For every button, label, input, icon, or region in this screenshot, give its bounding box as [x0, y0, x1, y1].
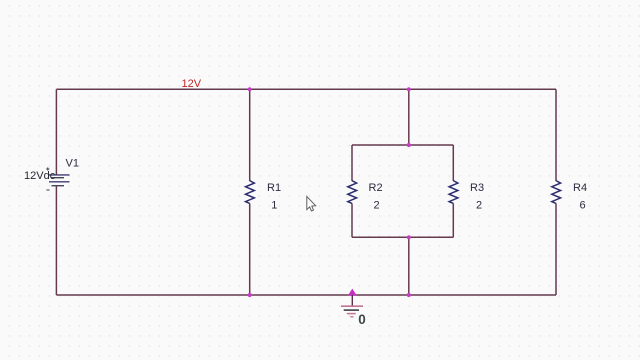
wire: box right lower [452, 203, 454, 237]
svg-text:0: 0 [358, 312, 366, 327]
junction dot: top rail / R1 branch [248, 87, 252, 91]
wire: R1 branch lower [249, 203, 251, 295]
svg-text:1: 1 [271, 199, 277, 211]
value label 6 [580, 199, 586, 211]
label R3 [470, 182, 484, 194]
wire: parallel box top [352, 144, 453, 146]
junction marker at ground (magenta arrow) [348, 289, 357, 296]
svg-text:V1: V1 [66, 157, 79, 169]
wire: top rail 12V net [56, 88, 556, 90]
wire: box left upper [351, 145, 353, 181]
junction dot: bottom rail / R2R3 stem [407, 293, 411, 297]
svg-text:R1: R1 [267, 182, 281, 194]
wire: R2R3 stem from top rail [408, 89, 410, 145]
label R2 [369, 182, 383, 194]
value label 2 [476, 199, 482, 211]
svg-text:R3: R3 [470, 182, 484, 194]
junction dot: box bottom center [407, 235, 411, 239]
wire: left rail upper (top rail to V1 plus) [55, 89, 57, 175]
ground bar 1 [341, 305, 363, 307]
V1 minus sign [46, 189, 49, 191]
wire: box left lower [351, 203, 353, 237]
svg-text:2: 2 [476, 199, 482, 211]
resistor R1 [246, 181, 255, 204]
mouse cursor [307, 197, 316, 212]
svg-text:R4: R4 [573, 182, 587, 194]
ground stem [351, 295, 353, 306]
voltage source V1 battery plates [49, 175, 70, 186]
wire: bottom rail [56, 294, 556, 296]
resistor R2 [348, 181, 357, 204]
label V1 [66, 157, 79, 169]
wire: parallel box bottom [352, 236, 453, 238]
svg-text:12V: 12V [182, 78, 202, 90]
junction dot: top rail / R2R3 stem [407, 87, 411, 91]
svg-text:6: 6 [580, 199, 586, 211]
net label 12V [182, 78, 202, 90]
ground bar 2 [344, 309, 359, 311]
label R4 [573, 182, 587, 194]
resistor R4 [552, 181, 561, 204]
value label 12Vdc [24, 170, 56, 182]
junction dot: box top center [407, 143, 411, 147]
svg-text:12Vdc: 12Vdc [24, 170, 56, 182]
wire: right rail lower [555, 203, 557, 295]
label R1 [267, 182, 281, 194]
svg-text:R2: R2 [369, 182, 383, 194]
value label 2 [374, 199, 380, 211]
resistor R3 [449, 181, 458, 204]
ground bar 4 [350, 316, 353, 318]
value label 1 [271, 199, 277, 211]
wire: R2R3 stem to bottom rail [408, 237, 410, 295]
wire: box right upper [452, 145, 454, 181]
wire: left rail lower (V1 minus to bottom rail) [55, 186, 57, 295]
svg-text:2: 2 [374, 199, 380, 211]
V1 plus sign [46, 167, 49, 170]
wire: R1 branch upper [249, 89, 251, 181]
ground bar 3 [347, 313, 356, 315]
junction dot: bottom rail / R1 branch [248, 293, 252, 297]
ground net label 0 [358, 312, 366, 327]
wire: right rail upper [555, 89, 557, 181]
